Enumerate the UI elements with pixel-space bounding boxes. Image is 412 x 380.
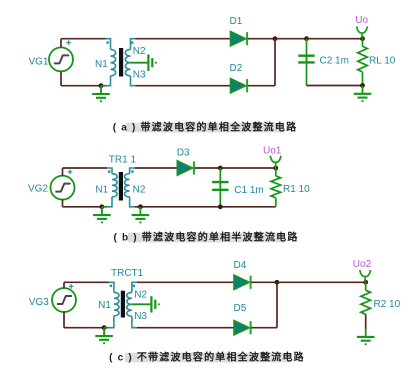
capacitor C2: [298, 39, 314, 86]
wire node to C2 top: [275, 38, 307, 40]
svg-text:C1 1m: C1 1m: [234, 185, 263, 196]
resistor RL: [358, 46, 368, 72]
wire C2 bottom to RL bottom: [307, 85, 363, 87]
wire VG1 bottom to ground node: [61, 85, 101, 87]
svg-text:N2: N2: [133, 184, 146, 195]
ground below VG3 circuit: [95, 328, 113, 344]
svg-text:TRCT1: TRCT1: [111, 268, 144, 279]
transformer TRCT1 secondary N3: [127, 304, 137, 327]
svg-text:VG2: VG2: [28, 184, 48, 195]
junction node C1 bottom: [218, 204, 223, 209]
wire ground node to N1 bottom c: [104, 327, 109, 329]
transformer TRCT1 secondary N2: [127, 282, 137, 304]
wire ground node to N1 bottom: [101, 85, 106, 87]
wire D2 to corner: [248, 85, 275, 87]
svg-text:R2 10: R2 10: [374, 299, 401, 310]
wire VG3 top vertical: [63, 282, 65, 288]
output pin Uo2: [360, 270, 371, 282]
wire VG2 bottom to ground node: [63, 206, 102, 208]
svg-text:N2: N2: [133, 46, 146, 57]
wire D5 to corner: [251, 327, 277, 329]
plus mark VG2: [68, 170, 73, 175]
svg-text:TR1 1: TR1 1: [109, 154, 137, 165]
resistor R1: [271, 176, 281, 198]
junction node C1 top: [218, 166, 223, 171]
polarity dot TR1 N1: [108, 170, 110, 172]
lead R1 top: [275, 168, 277, 176]
wire N2 top to D3: [135, 167, 178, 169]
ground below VG1 circuit: [92, 86, 110, 102]
svg-text:Uo2: Uo2: [353, 259, 372, 270]
svg-text:D5: D5: [234, 303, 247, 314]
wire N2 top to D4: [137, 281, 234, 283]
circuit (b): half-wave rectifier with filter capacitor: [28, 145, 310, 222]
wire D4 to node: [251, 281, 277, 283]
junction node after D1: [273, 36, 278, 41]
lead RL top: [362, 39, 364, 47]
svg-text:D1: D1: [230, 16, 243, 27]
wire N2 bottom rail: [135, 206, 276, 208]
plus mark VG3: [69, 284, 74, 289]
polarity dot TRCT1 N2: [133, 285, 135, 287]
wire VG2 bottom vertical: [62, 199, 64, 207]
transformer secondary N3 winding: [125, 63, 135, 86]
transformer secondary N2 winding: [125, 39, 135, 63]
wire VG1 top to transformer: [61, 38, 106, 40]
output pin Uo: [357, 26, 368, 38]
svg-text:N2: N2: [134, 289, 147, 300]
wire primary ground to N1 bottom: [102, 206, 107, 208]
wire VG2 top vertical: [62, 168, 64, 176]
resistor R2: [361, 290, 371, 314]
caption (b): [113, 231, 298, 244]
svg-text:VG1: VG1: [28, 57, 48, 68]
capacitor C1: [212, 168, 228, 207]
wire C1 node to R1 top: [220, 167, 275, 169]
wire C2 top to RL top: [307, 38, 363, 40]
svg-text:D2: D2: [230, 63, 243, 74]
transformer TRCT1 core: [121, 291, 125, 318]
ground below R2: [357, 329, 375, 345]
lead RL bottom: [362, 72, 364, 86]
wire D5 up to node: [276, 282, 278, 327]
svg-text:R1 10: R1 10: [283, 184, 310, 195]
AC voltage source VG3: [52, 288, 76, 312]
junction node R2 top: [363, 280, 368, 285]
svg-text:N3: N3: [133, 70, 146, 81]
AC voltage source VG1: [49, 47, 73, 71]
transformer TRCT1 primary N1: [109, 282, 119, 327]
wire N3 bottom to D5: [137, 327, 234, 329]
junction node C2 top: [304, 36, 309, 41]
diode D3: [177, 161, 194, 175]
lead R2 top: [365, 282, 367, 290]
wire VG1 bottom vertical: [60, 71, 62, 85]
ground below RL: [354, 86, 372, 102]
svg-text:D3: D3: [177, 147, 190, 158]
transformer TR1 core: [119, 172, 123, 201]
diode D1: [231, 32, 248, 46]
junction node RL bottom: [360, 83, 365, 88]
wire VG2 top to transformer: [63, 167, 108, 169]
transformer TR1 secondary N2: [125, 168, 135, 207]
junction node RL top: [360, 36, 365, 41]
wire VG3 bottom vertical: [63, 312, 65, 328]
AC voltage source VG2: [51, 176, 75, 200]
svg-text:N3: N3: [134, 311, 147, 322]
transformer TR1 primary N1: [107, 168, 117, 207]
circuit (a): full-wave rectifier with filter capacitor: [28, 15, 395, 101]
junction node primary ground: [100, 204, 105, 209]
plus mark VG1: [66, 40, 71, 45]
lead R1 bottom: [275, 198, 277, 207]
svg-text:N1: N1: [98, 300, 111, 311]
svg-text:N1: N1: [95, 184, 108, 195]
junction node ground C: [102, 325, 107, 330]
polarity dot N2: [131, 41, 133, 43]
svg-text:Uo1: Uo1: [263, 145, 282, 156]
circuit (c): full-wave rectifier without filter capacitor: [29, 259, 401, 344]
polarity dot N1: [106, 41, 108, 43]
center tap ground c: [132, 296, 159, 312]
caption (c): [109, 351, 305, 364]
svg-text:D4: D4: [234, 260, 247, 271]
svg-text:C2 1m: C2 1m: [320, 55, 349, 66]
transformer primary N1 winding: [106, 39, 116, 86]
wire VG1 top vertical: [60, 39, 62, 48]
junction node secondary ground: [138, 204, 143, 209]
svg-text:Uo: Uo: [355, 15, 368, 26]
junction node R1 top: [273, 166, 278, 171]
wire N2 to D1: [136, 38, 231, 40]
ground below primary: [93, 207, 111, 223]
transformer core: [119, 48, 123, 77]
svg-text:N1: N1: [95, 59, 108, 70]
wire D3 to C1 node: [195, 167, 221, 169]
center tap ground: [131, 55, 156, 71]
wire D1 to node: [248, 38, 275, 40]
diode D2: [231, 79, 248, 93]
junction node after D4: [275, 280, 280, 285]
caption (a): [113, 121, 298, 134]
diode D4: [234, 275, 251, 289]
wire N3 to D2: [136, 85, 231, 87]
polarity dot TR1 N2: [131, 170, 133, 172]
diode D5: [234, 321, 251, 335]
wire node to R2 top: [277, 281, 366, 283]
output pin Uo1: [270, 156, 281, 168]
junction node ground A: [99, 83, 104, 88]
svg-text:RL 10: RL 10: [369, 55, 396, 66]
wire D2 up to node: [274, 39, 276, 86]
wire VG3 top to transformer: [64, 281, 109, 283]
lead R2 bottom: [365, 314, 367, 329]
polarity dot TRCT1 N1: [110, 285, 112, 287]
wire VG3 bottom to ground node: [64, 327, 104, 329]
svg-text:VG3: VG3: [29, 297, 49, 308]
ground below secondary: [132, 207, 150, 223]
